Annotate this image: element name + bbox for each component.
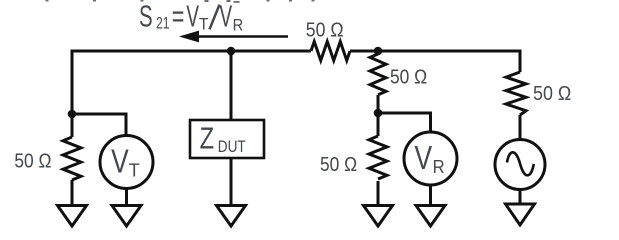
resistor R5 (50 ohm source termination, right)	[506, 72, 526, 115]
cropped text remnants along top edge	[46, 0, 315, 3]
meter VR (voltmeter circle)	[404, 132, 457, 185]
resistor R4 (50 ohm shunt, middle)	[369, 136, 387, 179]
svg-text:50 Ω: 50 Ω	[320, 154, 357, 176]
resistor R3 (50 ohm series, vertical below top wire)	[370, 54, 386, 95]
wire: top horizontal run from R1 to top-right corner, drops to R5	[350, 51, 520, 72]
svg-text:50 Ω: 50 Ω	[390, 67, 427, 89]
svg-text:DUT: DUT	[218, 138, 246, 156]
wire: ZDUT box to ground	[230, 158, 233, 206]
wire: node B to VR meter	[378, 113, 431, 132]
svg-text:V: V	[415, 139, 433, 176]
wire: node A down to R2	[71, 114, 74, 137]
svg-text:T: T	[129, 160, 140, 180]
direction arrow (S21 measurement, pointing left)	[179, 31, 288, 43]
svg-text:V: V	[111, 142, 129, 179]
ground (below VR)	[416, 206, 445, 227]
svg-text:S: S	[139, 0, 153, 34]
svg-text:V: V	[220, 0, 233, 34]
ground (below VT)	[112, 206, 141, 227]
source VS (AC sine source)	[495, 140, 545, 190]
wire: source to ground	[519, 190, 522, 205]
node A: junction of left branch (R2 / VT)	[68, 110, 77, 119]
wire: R4 to ground	[377, 181, 380, 206]
svg-text:T: T	[199, 15, 209, 34]
meter VT (voltmeter circle)	[100, 136, 153, 189]
svg-text:50 Ω: 50 Ω	[533, 83, 571, 105]
resistor R1 (series 50 ohm, horizontal in top wire)	[311, 42, 350, 61]
component ZDUT (device under test box)	[190, 120, 264, 158]
wire: R3 to node B	[377, 95, 380, 113]
resistor R2 (50 ohm shunt, left)	[63, 137, 81, 180]
wire: R5 to source	[519, 115, 522, 140]
ground (below ZDUT)	[217, 206, 246, 227]
node: junction of top wire and ZDUT branch	[227, 47, 236, 56]
annotation S21 = VT/VR	[139, 0, 243, 35]
wire: R2 to ground	[71, 180, 74, 206]
svg-text:21: 21	[156, 14, 170, 33]
svg-text:R: R	[233, 16, 244, 35]
ground (below R2)	[58, 206, 87, 227]
svg-text:Z: Z	[200, 120, 215, 155]
node: junction of top wire and R3 branch	[374, 47, 383, 56]
wire: node A to VT meter	[72, 114, 126, 136]
svg-text:50 Ω: 50 Ω	[14, 151, 51, 173]
svg-text:50 Ω: 50 Ω	[306, 19, 344, 41]
ground (below source)	[506, 204, 535, 225]
wire: VR to ground	[429, 185, 432, 206]
wire: top-left corner, vertical drop to node A and top horizontal run	[72, 51, 311, 114]
node B: junction of R4 / VR branch	[374, 109, 383, 118]
wire: node B down to R4	[377, 113, 380, 136]
svg-text:R: R	[433, 157, 445, 177]
svg-text:V: V	[186, 0, 199, 34]
wire: VT to ground	[125, 189, 128, 207]
wire: ZDUT branch from top wire down to box	[230, 51, 233, 120]
svg-text:=: =	[172, 0, 185, 34]
ground (below R4)	[364, 206, 393, 227]
